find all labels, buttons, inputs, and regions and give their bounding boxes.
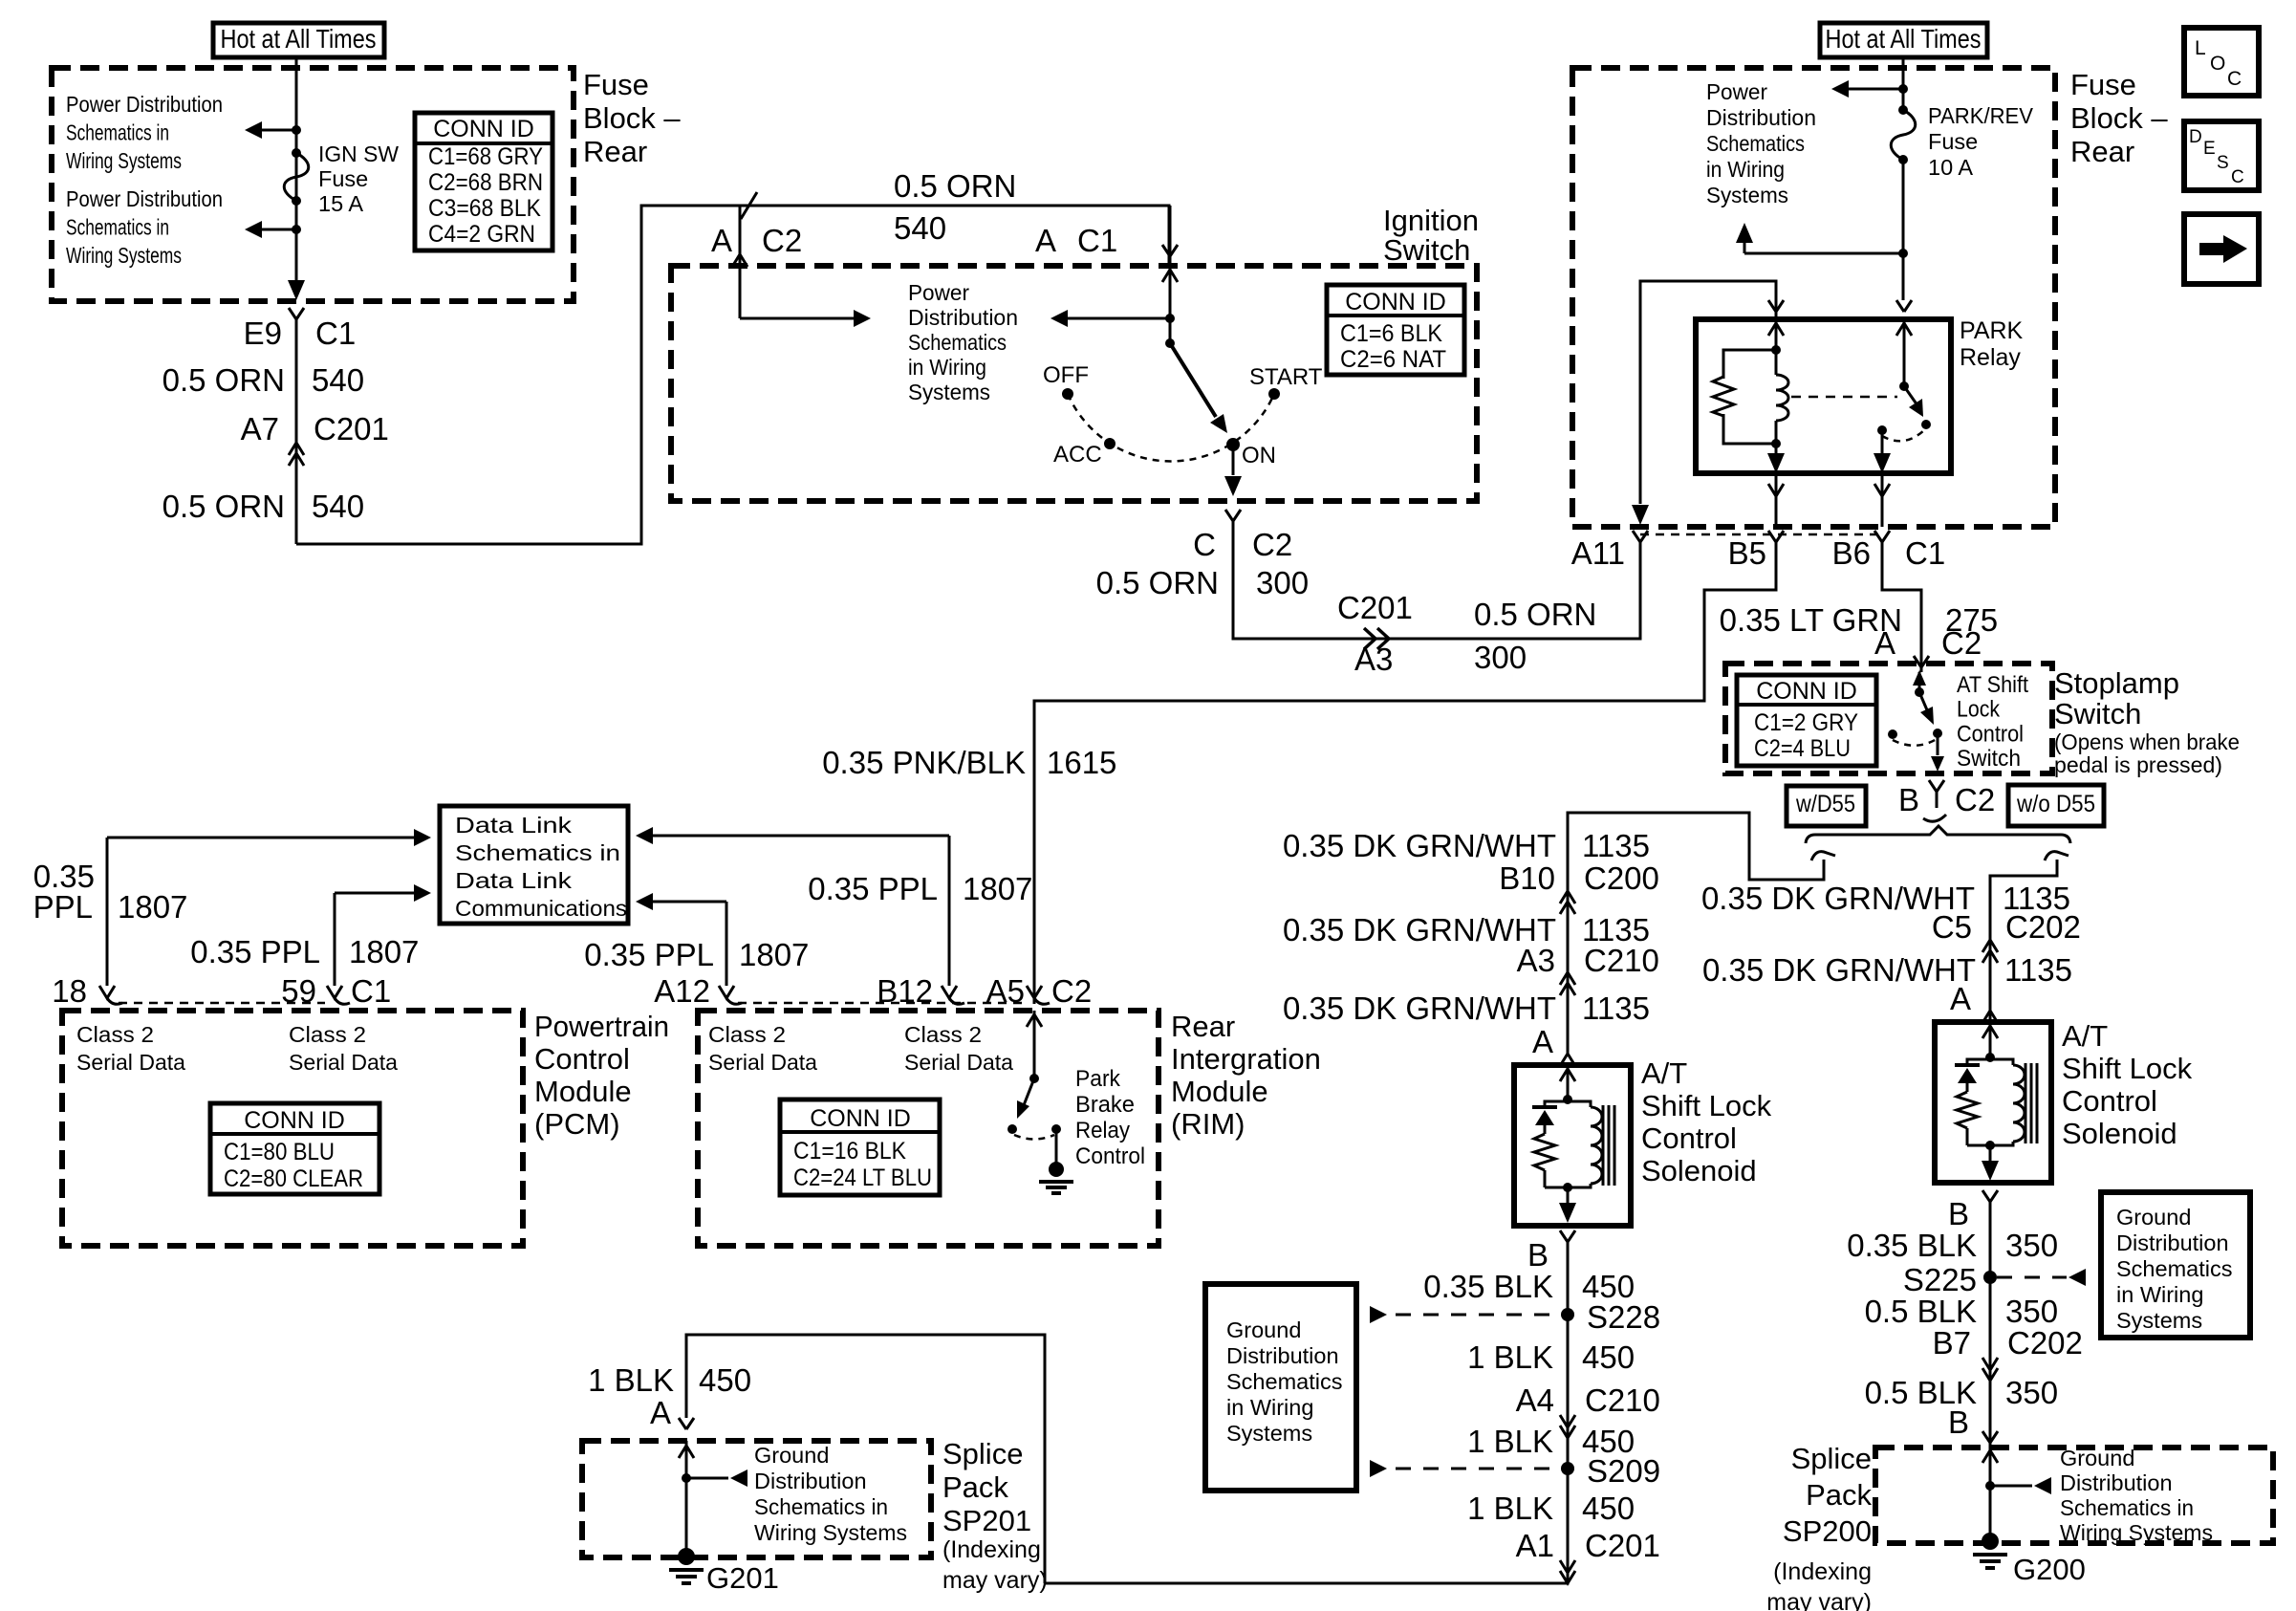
svg-text:Wiring Systems: Wiring Systems [2060, 1520, 2213, 1545]
DESC box [2184, 121, 2259, 190]
PCM connector dashed link line [119, 1002, 325, 1005]
svg-text:0.35 BLK: 0.35 BLK [1423, 1269, 1553, 1304]
svg-text:A: A [1950, 981, 1971, 1016]
svg-text:START: START [1249, 364, 1323, 390]
svg-text:Intergration: Intergration [1171, 1042, 1321, 1076]
svg-text:Class 2: Class 2 [289, 1022, 366, 1047]
right ground wire 350 chain [1989, 1202, 1992, 1448]
svg-text:A3: A3 [1517, 943, 1555, 978]
svg-text:C2: C2 [762, 223, 802, 258]
svg-text:C1=2 GRY: C1=2 GRY [1754, 709, 1858, 736]
svg-text:18: 18 [52, 973, 87, 1009]
svg-text:Schematics: Schematics [1706, 131, 1805, 156]
svg-text:pedal is pressed): pedal is pressed) [2054, 752, 2222, 777]
svg-text:in Wiring: in Wiring [908, 355, 986, 380]
svg-text:B: B [1898, 782, 1919, 817]
svg-text:Switch: Switch [1383, 233, 1470, 267]
connector E9/C1 [289, 308, 296, 319]
svg-text:Solenoid: Solenoid [2062, 1117, 2177, 1150]
left solenoid coil [1568, 1101, 1591, 1107]
ignition switch movable contact [1165, 338, 1175, 348]
svg-text:C201: C201 [314, 411, 389, 446]
svg-text:C2=6 NAT: C2=6 NAT [1340, 346, 1446, 373]
SP200 ground distribution reference arrow [1990, 1485, 2032, 1488]
ignition switch positions [1062, 388, 1073, 400]
svg-text:Class 2: Class 2 [76, 1022, 154, 1047]
svg-text:Shift Lock: Shift Lock [1641, 1089, 1772, 1122]
svg-text:in Wiring: in Wiring [1226, 1395, 1313, 1420]
svg-text:may vary): may vary) [1766, 1589, 1872, 1611]
svg-text:Rear: Rear [583, 135, 647, 168]
svg-text:59: 59 [281, 973, 316, 1009]
svg-text:C210: C210 [1584, 943, 1659, 978]
class2 serial wire A12 with arrow into data link box [726, 902, 728, 986]
ground distribution reference box (right) [2101, 1192, 2250, 1338]
svg-text:Fuse: Fuse [583, 68, 649, 101]
svg-text:B5: B5 [1728, 535, 1766, 571]
svg-text:0.5 ORN: 0.5 ORN [894, 168, 1016, 204]
svg-text:B: B [1527, 1237, 1549, 1273]
svg-text:S209: S209 [1587, 1453, 1660, 1489]
svg-text:A7: A7 [241, 411, 279, 446]
svg-text:S: S [2217, 153, 2229, 173]
svg-text:Lock: Lock [1957, 697, 2001, 723]
splice S225 [1983, 1271, 1997, 1284]
connector B below right solenoid [1982, 1190, 1990, 1202]
arrow to power distribution (right fuse block) [1849, 88, 1903, 91]
svg-text:Data Link: Data Link [455, 813, 572, 838]
exit arrow at fuse block bottom [288, 280, 305, 300]
svg-text:0.35 PPL: 0.35 PPL [808, 871, 938, 906]
relay feed connectors [1896, 300, 1904, 312]
svg-text:OFF: OFF [1043, 362, 1089, 388]
ground inside RIM [1055, 1129, 1058, 1163]
svg-text:0.35 DK GRN/WHT: 0.35 DK GRN/WHT [1702, 952, 1976, 988]
svg-text:Park: Park [1075, 1066, 1121, 1092]
in-line connector A/C2 slash [741, 192, 757, 219]
ground G200 [1982, 1533, 1999, 1550]
ground wire 450 chain [1045, 1242, 1568, 1583]
svg-text:Class 2: Class 2 [904, 1022, 982, 1047]
svg-text:B6: B6 [1832, 535, 1871, 571]
relay coil output arrow [1775, 444, 1778, 456]
ON output wire with arrow [1232, 445, 1235, 475]
svg-text:C200: C200 [1584, 860, 1659, 896]
svg-text:Schematics: Schematics [2116, 1256, 2232, 1281]
svg-text:300: 300 [1256, 565, 1309, 600]
svg-text:540: 540 [312, 489, 364, 524]
svg-text:C1=68 GRY: C1=68 GRY [428, 143, 543, 170]
junction dot with arrow to power distribution [1165, 314, 1175, 323]
svg-text:C1: C1 [315, 316, 356, 351]
svg-text:Systems: Systems [1706, 183, 1788, 207]
relay switch output arrow [1881, 430, 1884, 456]
svg-text:Fuse: Fuse [2070, 68, 2136, 101]
svg-text:Schematics in: Schematics in [455, 840, 620, 865]
wire 0.5 ORN 540 down [295, 319, 298, 544]
svg-text:A11: A11 [1571, 535, 1625, 571]
svg-text:1135: 1135 [2004, 952, 2072, 988]
connector C/C2 below ignition box [1225, 510, 1233, 521]
svg-text:Control: Control [1957, 721, 2024, 747]
svg-text:SP200: SP200 [1783, 1514, 1872, 1548]
svg-text:Power: Power [1706, 79, 1767, 104]
svg-text:C2: C2 [1955, 782, 1995, 817]
svg-text:Ground: Ground [2060, 1446, 2134, 1470]
svg-text:Rear: Rear [2070, 135, 2134, 168]
svg-text:Pack: Pack [1806, 1478, 1872, 1512]
svg-text:0.35 PNK/BLK: 0.35 PNK/BLK [822, 745, 1026, 780]
left solenoid output arrow [1567, 1187, 1570, 1204]
svg-text:Fuse: Fuse [318, 166, 368, 191]
svg-text:C201: C201 [1585, 1528, 1660, 1563]
svg-text:C202: C202 [2007, 1325, 2083, 1361]
svg-text:C5: C5 [1932, 909, 1972, 945]
svg-text:1 BLK: 1 BLK [588, 1362, 674, 1398]
svg-text:C202: C202 [2005, 909, 2081, 945]
svg-text:Wiring Systems: Wiring Systems [66, 148, 182, 173]
svg-text:Ground: Ground [754, 1443, 829, 1468]
svg-text:SP201: SP201 [942, 1504, 1031, 1537]
CONN ID table (stoplamp) [1737, 675, 1876, 766]
relay coil winding [1775, 350, 1778, 375]
svg-text:Control: Control [1075, 1143, 1145, 1169]
svg-text:A: A [650, 1395, 671, 1430]
splice pack SP201 dashed box [582, 1441, 931, 1557]
svg-text:C2=4 BLU: C2=4 BLU [1754, 735, 1851, 762]
svg-text:A: A [1035, 223, 1056, 258]
junction dot lower [292, 225, 301, 234]
svg-text:Fuse: Fuse [1928, 129, 1978, 154]
svg-text:in Wiring: in Wiring [1706, 157, 1785, 182]
svg-text:C: C [1193, 527, 1216, 562]
svg-text:C1: C1 [1905, 535, 1945, 571]
svg-text:(RIM): (RIM) [1171, 1107, 1245, 1141]
svg-text:B10: B10 [1499, 860, 1555, 896]
svg-text:CONN ID: CONN ID [810, 1105, 911, 1132]
svg-text:C1=6 BLK: C1=6 BLK [1340, 320, 1442, 347]
svg-text:1807: 1807 [349, 934, 419, 969]
svg-text:1135: 1135 [1582, 991, 1650, 1026]
svg-text:1807: 1807 [739, 937, 809, 972]
in-line connector C201/A3 double chevron right [1364, 628, 1375, 649]
junction dot top [292, 125, 301, 135]
svg-text:Ground: Ground [2116, 1205, 2191, 1230]
svg-text:Splice: Splice [942, 1437, 1023, 1470]
fuse block left dashed box [52, 68, 574, 301]
svg-text:Distribution: Distribution [754, 1469, 867, 1493]
svg-text:E9: E9 [244, 316, 282, 351]
svg-text:ON: ON [1242, 443, 1276, 468]
CONN ID table (PCM) [210, 1103, 379, 1194]
svg-text:w/D55: w/D55 [1795, 791, 1855, 817]
svg-text:A4: A4 [1516, 1382, 1554, 1418]
svg-text:Systems: Systems [908, 380, 990, 404]
svg-text:Control: Control [534, 1042, 630, 1076]
svg-text:450: 450 [1582, 1339, 1635, 1375]
SP201 ground distribution reference arrow [686, 1477, 728, 1480]
svg-text:Serial Data: Serial Data [708, 1050, 818, 1075]
stoplamp switch dashed box [1725, 664, 2052, 773]
w/D55 box [1787, 786, 1866, 826]
svg-text:AT Shift: AT Shift [1957, 672, 2028, 698]
svg-text:S228: S228 [1587, 1299, 1660, 1335]
splice pack SP200 dashed box [1875, 1448, 2273, 1543]
svg-text:(Indexing: (Indexing [1773, 1558, 1872, 1585]
svg-text:Communications: Communications [455, 896, 627, 921]
relay actuation dashed link [1791, 396, 1897, 399]
right option hook (w/o D55) [2045, 852, 2069, 860]
svg-text:PARK/REV: PARK/REV [1928, 103, 2033, 128]
svg-text:0.5 ORN: 0.5 ORN [162, 489, 285, 524]
svg-text:10 A: 10 A [1928, 155, 1973, 180]
svg-text:350: 350 [2005, 1375, 2058, 1410]
svg-text:O: O [2210, 53, 2225, 75]
svg-text:Solenoid: Solenoid [1641, 1154, 1757, 1187]
svg-text:Hot at All Times: Hot at All Times [221, 24, 377, 54]
relay outputs to connectors B5 B6 [1775, 473, 1778, 527]
svg-text:Pack: Pack [942, 1470, 1008, 1504]
svg-text:Schematics: Schematics [908, 330, 1007, 355]
svg-text:C2=80 CLEAR: C2=80 CLEAR [224, 1165, 363, 1192]
IGN SW fuse 15A [292, 148, 301, 158]
svg-text:Block –: Block – [583, 101, 681, 135]
A/T shift lock control solenoid box (left) [1514, 1065, 1631, 1226]
svg-text:Switch: Switch [2054, 697, 2141, 730]
CONN ID table (fuse block left) [415, 113, 552, 250]
svg-text:C1=16 BLK: C1=16 BLK [793, 1138, 906, 1165]
svg-text:0.35 PPL: 0.35 PPL [190, 934, 320, 969]
svg-text:Rear: Rear [1171, 1010, 1235, 1043]
svg-text:C: C [2231, 167, 2244, 187]
class2 serial wire 18 with arrow into data link box [106, 838, 109, 986]
svg-text:C1=80 BLU: C1=80 BLU [224, 1139, 335, 1165]
svg-text:Stoplamp: Stoplamp [2054, 666, 2179, 700]
branch with up arrow to power distribution text [1744, 252, 1903, 255]
svg-text:Ignition: Ignition [1383, 204, 1479, 237]
svg-text:C4=2 GRN: C4=2 GRN [428, 221, 535, 248]
svg-text:450: 450 [699, 1362, 751, 1398]
svg-text:Data Link: Data Link [455, 868, 572, 893]
splice S209 [1561, 1462, 1574, 1475]
svg-text:S225: S225 [1903, 1262, 1977, 1297]
svg-text:(Indexing: (Indexing [942, 1536, 1041, 1563]
svg-text:A12: A12 [654, 973, 710, 1009]
ignition switch dashed box [671, 266, 1477, 501]
svg-text:C2: C2 [1051, 973, 1092, 1009]
w/o D55 box [2008, 785, 2104, 826]
Rear Integration Module dashed box [698, 1011, 1159, 1246]
stoplamp output arrow [1937, 733, 1939, 755]
svg-text:may vary): may vary) [942, 1567, 1048, 1594]
svg-text:350: 350 [2005, 1228, 2058, 1263]
class2 serial wire 59/C1 with arrow into data link box [334, 893, 336, 986]
internal fuse block wire A11 to relay coil [1640, 281, 1776, 504]
wire from hot feed down through fuse block [295, 57, 298, 282]
svg-text:Module: Module [1171, 1075, 1268, 1108]
svg-text:C210: C210 [1585, 1382, 1660, 1418]
svg-text:1807: 1807 [963, 871, 1032, 906]
left solenoid core lines [1602, 1105, 1605, 1186]
svg-text:Power: Power [908, 280, 969, 305]
dashed position arc [1068, 394, 1274, 461]
right solenoid coil [1990, 1059, 2013, 1065]
svg-text:Schematics in: Schematics in [2060, 1495, 2194, 1520]
svg-text:Distribution: Distribution [1226, 1343, 1339, 1368]
option brace [1806, 826, 2070, 843]
svg-text:IGN SW: IGN SW [318, 142, 400, 166]
class2 serial wire B12 with arrow into data link box [948, 836, 951, 986]
feed wire down from hot [1902, 57, 1905, 110]
svg-text:in Wiring: in Wiring [2116, 1282, 2203, 1307]
svg-text:L: L [2195, 37, 2206, 59]
splice S228 [1561, 1308, 1574, 1321]
svg-text:A1: A1 [1516, 1528, 1554, 1563]
connector B/C2 below stoplamp [1929, 780, 1937, 792]
svg-text:Serial Data: Serial Data [289, 1050, 399, 1075]
relay coil branch [1775, 319, 1778, 350]
svg-text:540: 540 [894, 210, 946, 246]
svg-text:1 BLK: 1 BLK [1467, 1424, 1553, 1459]
arrow to power distribution (bottom) [262, 229, 296, 231]
svg-text:B7: B7 [1933, 1325, 1971, 1361]
svg-text:Serial Data: Serial Data [76, 1050, 186, 1075]
svg-text:C201: C201 [1337, 590, 1413, 625]
left option wire to C200 [1568, 813, 1824, 1054]
right solenoid feed [1989, 1022, 1992, 1057]
svg-text:Shift Lock: Shift Lock [2062, 1052, 2193, 1085]
svg-text:A: A [1874, 625, 1895, 661]
svg-text:CONN ID: CONN ID [1345, 289, 1446, 316]
svg-text:CONN ID: CONN ID [244, 1107, 345, 1134]
switch feed wire [1169, 206, 1172, 343]
svg-text:PPL: PPL [33, 889, 93, 925]
fuse block right dashed box [1572, 68, 2055, 527]
svg-text:Powertrain: Powertrain [534, 1010, 669, 1043]
left solenoid diode+resistor branch [1545, 1101, 1568, 1107]
connector line under fuse block [1640, 533, 1882, 536]
B6/C1 wire to stoplamp switch [1882, 542, 1921, 672]
svg-text:Switch: Switch [1957, 746, 2021, 772]
Hot at All Times box (right) [1820, 23, 1987, 57]
svg-text:1807: 1807 [118, 889, 187, 925]
left solenoid feed [1567, 1065, 1570, 1099]
svg-text:1 BLK: 1 BLK [1467, 1339, 1553, 1375]
svg-text:Systems: Systems [1226, 1421, 1312, 1446]
svg-text:1615: 1615 [1047, 745, 1116, 780]
svg-text:540: 540 [312, 362, 364, 398]
svg-text:CONN ID: CONN ID [433, 116, 534, 142]
svg-text:C2: C2 [1252, 527, 1292, 562]
svg-text:Relay: Relay [1960, 344, 2021, 371]
svg-text:A/T: A/T [2062, 1019, 2108, 1053]
right solenoid core lines [2025, 1063, 2027, 1143]
svg-text:Distribution: Distribution [2116, 1230, 2229, 1255]
svg-text:C: C [2227, 68, 2242, 90]
svg-text:Power Distribution: Power Distribution [66, 92, 223, 117]
svg-text:0.35 DK GRN/WHT: 0.35 DK GRN/WHT [1283, 991, 1556, 1026]
svg-text:Control: Control [1641, 1121, 1737, 1155]
svg-text:C2=68 BRN: C2=68 BRN [428, 169, 543, 196]
stoplamp switch contacts [1918, 672, 1921, 692]
svg-text:C2: C2 [1941, 625, 1982, 661]
svg-text:Control: Control [2062, 1084, 2157, 1118]
svg-text:B: B [1948, 1404, 1969, 1440]
svg-text:Schematics in: Schematics in [66, 120, 169, 145]
svg-text:A/T: A/T [1641, 1056, 1687, 1090]
svg-text:C1: C1 [351, 973, 391, 1009]
connector B below left solenoid [1560, 1230, 1568, 1242]
right solenoid diode+resistor branch [1967, 1059, 1990, 1065]
svg-text:0.5 ORN: 0.5 ORN [1474, 597, 1596, 632]
wire from fuse to relay [1902, 160, 1905, 300]
svg-text:Schematics in: Schematics in [66, 215, 169, 240]
wire 0.5 ORN 300 to fuse block A11 [1233, 521, 1640, 639]
right option wire to C202 [1990, 860, 2057, 1022]
relay switch [1903, 319, 1906, 386]
svg-text:(PCM): (PCM) [534, 1107, 620, 1141]
svg-text:Brake: Brake [1075, 1092, 1135, 1118]
PARK/REV fuse 10A [1898, 105, 1908, 115]
svg-text:Schematics: Schematics [1226, 1369, 1342, 1394]
arrow to power distribution (top) [262, 129, 296, 132]
svg-text:0.35 PPL: 0.35 PPL [584, 937, 714, 972]
svg-text:D: D [2189, 127, 2202, 147]
svg-text:B: B [1948, 1196, 1969, 1231]
svg-text:Distribution: Distribution [908, 305, 1018, 330]
svg-text:C3=68 BLK: C3=68 BLK [428, 195, 541, 222]
park brake relay control switch in RIM [1033, 1011, 1036, 1078]
svg-text:0.35 DK GRN/WHT: 0.35 DK GRN/WHT [1283, 912, 1556, 947]
svg-text:(Opens when brake: (Opens when brake [2054, 729, 2240, 754]
CONN ID table (ignition) [1327, 285, 1464, 375]
svg-text:Systems: Systems [2116, 1308, 2202, 1333]
svg-text:w/o D55: w/o D55 [2016, 791, 2095, 817]
svg-text:0.5 ORN: 0.5 ORN [162, 362, 285, 398]
RIM connector dashed link line [738, 1002, 1025, 1005]
svg-text:0.35 BLK: 0.35 BLK [1847, 1228, 1977, 1263]
B5 wire to PNK/BLK run [1034, 542, 1776, 1004]
svg-text:Ground: Ground [1226, 1317, 1301, 1342]
svg-text:Schematics in: Schematics in [754, 1494, 888, 1519]
ground G201 [678, 1548, 695, 1565]
svg-text:Block –: Block – [2070, 101, 2168, 135]
svg-text:ACC: ACC [1053, 442, 1102, 468]
relay resistor [1723, 350, 1776, 379]
svg-text:CONN ID: CONN ID [1756, 678, 1857, 705]
svg-text:Power Distribution: Power Distribution [66, 186, 223, 211]
next-page arrow box [2184, 214, 2259, 284]
svg-text:Distribution: Distribution [2060, 1470, 2173, 1495]
branch into box toward power distribution text [739, 206, 742, 318]
svg-text:PARK: PARK [1960, 317, 2024, 344]
svg-text:C1: C1 [1077, 223, 1117, 258]
svg-text:0.35 DK GRN/WHT: 0.35 DK GRN/WHT [1283, 828, 1556, 863]
svg-text:A: A [711, 223, 732, 258]
svg-text:A: A [1532, 1024, 1553, 1059]
svg-text:350: 350 [2005, 1294, 2058, 1329]
svg-text:0.5 BLK: 0.5 BLK [1865, 1294, 1977, 1329]
wire run to ignition switch [296, 206, 1169, 544]
svg-text:C2=24 LT BLU: C2=24 LT BLU [793, 1165, 932, 1191]
svg-text:0.5 ORN: 0.5 ORN [1096, 565, 1219, 600]
svg-text:Distribution: Distribution [1706, 105, 1816, 130]
wire 1 BLK 450 from PNK region to SP201 [686, 1335, 1045, 1583]
CONN ID table (RIM) [780, 1099, 940, 1195]
svg-text:Wiring Systems: Wiring Systems [66, 243, 182, 268]
SP200 internal bus [1989, 1448, 1992, 1541]
svg-text:G200: G200 [2013, 1553, 2086, 1586]
